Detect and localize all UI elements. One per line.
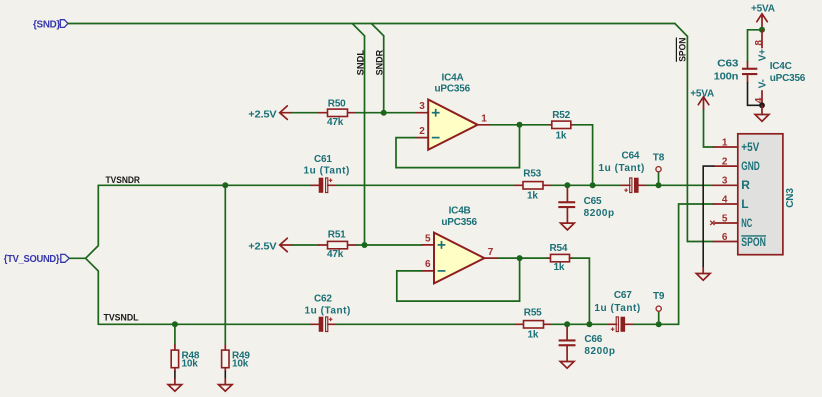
ground IC4C — [755, 105, 769, 121]
svg-text:+2.5V: +2.5V — [248, 242, 277, 253]
wire R48 stem — [174, 324, 176, 345]
junction R54 node — [586, 321, 592, 327]
svg-text:{SND}: {SND} — [33, 19, 60, 30]
svg-text:1u (Tant): 1u (Tant) — [594, 303, 640, 314]
svg-text:V+: V+ — [758, 49, 769, 61]
wire bias to R49 — [224, 185, 226, 345]
svg-text:8200p: 8200p — [584, 346, 615, 357]
junction C65 node — [564, 182, 570, 188]
svg-text:10k: 10k — [232, 359, 249, 370]
resistor R49 — [222, 345, 251, 385]
op-amp power unit IC4C — [754, 30, 806, 106]
power symbol +2.5V row1 — [248, 106, 292, 120]
capacitor C61 — [303, 154, 349, 193]
wire TVSNDR row — [98, 184, 311, 186]
wire CN3 GND black — [703, 166, 713, 268]
pin 6 IC4B — [422, 270, 434, 272]
svg-text:3: 3 — [419, 101, 425, 112]
capacitor C65 — [558, 188, 614, 223]
wire SPON vertical — [686, 36, 688, 241]
capacitor C64 — [598, 150, 646, 192]
wire SNDL vertical — [364, 36, 366, 245]
pin 5 IC4B — [422, 244, 434, 246]
svg-text:1k: 1k — [527, 190, 538, 201]
svg-text:1k: 1k — [554, 262, 565, 273]
pin 6 CN3 SPON with overbar — [714, 241, 738, 243]
op-amp U IC4B — [434, 206, 484, 284]
wire SNDL branch diagonal — [352, 24, 364, 36]
resistor R53 — [515, 169, 551, 202]
svg-text:100n: 100n — [714, 72, 739, 83]
svg-text:2: 2 — [722, 156, 728, 167]
svg-text:+5VA: +5VA — [751, 4, 775, 15]
junction IC4C V- black — [759, 102, 765, 108]
test point T8 — [653, 153, 665, 186]
pin 4 CN3 L — [714, 203, 738, 205]
wire R51 to IC4B pin5 — [356, 244, 422, 246]
svg-text:C61: C61 — [314, 154, 332, 165]
svg-text:CN3: CN3 — [785, 188, 796, 208]
svg-text:6: 6 — [722, 232, 728, 243]
svg-text:R55: R55 — [524, 308, 542, 319]
svg-text:2: 2 — [419, 126, 425, 137]
svg-text:SNDL: SNDL — [356, 50, 367, 76]
wire C62 to R55 — [336, 323, 515, 325]
junction T8 node — [656, 182, 662, 188]
wire TV_SOUND stem — [69, 257, 85, 259]
wire +2.5V to R50 — [293, 112, 319, 114]
svg-text:3: 3 — [722, 176, 728, 187]
svg-text:C67: C67 — [614, 290, 632, 301]
svg-text:C65: C65 — [584, 196, 602, 207]
svg-text:{TV_SOUND}: {TV_SOUND} — [4, 254, 60, 265]
junction IC4A output — [517, 122, 523, 128]
svg-text:4: 4 — [722, 194, 728, 205]
wire TV_SOUND upper diagonal — [86, 185, 99, 258]
svg-text:1: 1 — [722, 137, 728, 148]
svg-text:1: 1 — [481, 114, 487, 125]
ground C65 — [561, 223, 575, 230]
junction R48 node — [172, 321, 178, 327]
wire SPON to CN3 pin 6 — [687, 241, 713, 243]
capacitor C62 — [304, 293, 350, 331]
wire R54 to node L — [573, 258, 590, 324]
wire SNDR vertical — [383, 36, 385, 113]
junction SNDL R51 — [362, 242, 368, 248]
svg-text:C62: C62 — [314, 293, 332, 304]
svg-text:47k: 47k — [327, 117, 344, 128]
ground R49 — [219, 385, 233, 392]
resistor R55 — [516, 308, 552, 341]
svg-text:T8: T8 — [653, 153, 665, 164]
pin 2 IC4A — [416, 137, 428, 139]
wire C63 to V- black — [748, 83, 763, 106]
power symbol +2.5V row2 — [248, 238, 292, 252]
junction SNDR R50 — [381, 110, 387, 116]
svg-text:GND: GND — [741, 159, 760, 173]
pin 2 CN3 GND — [714, 165, 738, 167]
svg-text:1k: 1k — [528, 329, 539, 340]
svg-text:+5V: +5V — [741, 140, 759, 154]
wire +2.5V to R51 — [293, 244, 319, 246]
wire +5VA to CN3 pin1 — [704, 110, 714, 147]
capacitor C67 — [594, 290, 640, 332]
resistor R51 — [319, 229, 357, 260]
junction R52 node — [590, 182, 596, 188]
wire R52 to node R — [574, 125, 593, 186]
wire C64 to CN3 pin3 — [647, 184, 713, 186]
svg-text:4: 4 — [754, 97, 765, 103]
wire SND bus top — [68, 23, 675, 25]
wire C67 to corner — [634, 323, 679, 325]
svg-text:6: 6 — [425, 259, 431, 270]
svg-text:NC: NC — [741, 216, 752, 230]
pin 3 CN3 R — [713, 184, 738, 186]
svg-text:R: R — [741, 178, 750, 192]
svg-text:47k: 47k — [327, 249, 344, 260]
wire R55 to C67 — [552, 323, 609, 325]
resistor R52 — [549, 110, 573, 142]
wire SNDR branch diagonal — [371, 24, 383, 36]
hierarchical label TV_SOUND — [4, 254, 70, 265]
svg-text:uPC356: uPC356 — [441, 217, 477, 228]
svg-text:SPON: SPON — [678, 37, 689, 61]
hierarchical label SND — [33, 19, 68, 30]
resistor R48 — [171, 345, 200, 385]
power symbol +5VA mid — [690, 89, 714, 110]
wire IC4B output to R54 — [498, 257, 548, 259]
wire +5VA to C63 — [748, 30, 763, 62]
svg-text:TVSNDR: TVSNDR — [106, 175, 141, 186]
svg-text:IC4C: IC4C — [770, 61, 792, 72]
svg-text:T9: T9 — [653, 291, 665, 302]
capacitor C66 — [559, 327, 616, 362]
ground CN3 GND — [696, 268, 710, 281]
svg-text:R50: R50 — [328, 99, 346, 110]
svg-text:1u (Tant): 1u (Tant) — [303, 166, 349, 177]
svg-text:V-: V- — [758, 79, 769, 88]
junction TVSNDR bias — [222, 182, 228, 188]
svg-text:uPC356: uPC356 — [435, 83, 471, 94]
junction C66 node — [564, 321, 570, 327]
wire R50 to IC4A pin3 — [356, 112, 416, 114]
svg-text:1k: 1k — [556, 131, 567, 142]
svg-text:C66: C66 — [584, 334, 602, 345]
svg-text:R53: R53 — [523, 169, 541, 180]
svg-text:1u (Tant): 1u (Tant) — [598, 163, 644, 174]
wire L channel to CN3 pin4 — [679, 204, 714, 324]
svg-text:IC4B: IC4B — [449, 206, 471, 217]
pin 1 IC4A — [478, 124, 491, 126]
connector CN3 — [738, 134, 796, 255]
svg-text:C64: C64 — [622, 150, 640, 161]
svg-text:R54: R54 — [550, 243, 568, 254]
svg-text:uPC356: uPC356 — [770, 73, 806, 84]
pin 7 IC4B — [484, 257, 498, 259]
wire IC4B feedback loop — [397, 258, 520, 301]
svg-text:1u (Tant): 1u (Tant) — [304, 306, 350, 317]
junction +5VA IC4C — [759, 27, 765, 33]
svg-text:R51: R51 — [328, 229, 346, 240]
wire IC4A output to R52 — [491, 124, 550, 126]
resistor R54 — [548, 243, 573, 273]
svg-text:8200p: 8200p — [584, 208, 615, 219]
resistor R50 — [319, 99, 357, 129]
junction IC4B output — [517, 255, 523, 261]
svg-text:5: 5 — [425, 234, 431, 245]
op-amp U IC4A — [428, 72, 477, 150]
svg-text:10k: 10k — [182, 359, 199, 370]
wire TVSNDL row — [98, 323, 311, 325]
ground R48 — [168, 385, 182, 392]
test point T9 — [653, 291, 665, 324]
label SPON with overbar — [676, 37, 688, 61]
svg-text:SNDR: SNDR — [375, 50, 386, 76]
svg-text:IC4A: IC4A — [442, 72, 464, 83]
svg-text:8: 8 — [754, 40, 765, 46]
junction T9 node — [656, 321, 662, 327]
pin 1 CN3 +5V — [714, 146, 738, 148]
pin 5 CN3 NC with no-connect cross — [715, 222, 738, 224]
wire C61 to R53 — [336, 184, 515, 186]
svg-text:+2.5V: +2.5V — [248, 109, 277, 120]
svg-text:5: 5 — [722, 213, 728, 224]
svg-text:7: 7 — [488, 247, 494, 258]
svg-text:SPON: SPON — [741, 235, 766, 249]
wire TV_SOUND lower diagonal — [86, 258, 99, 324]
wire SPON branch diagonal — [675, 24, 688, 37]
svg-text:TVSNDL: TVSNDL — [104, 312, 139, 323]
ground C66 — [560, 362, 574, 369]
power symbol +5VA top — [751, 4, 775, 30]
svg-text:L: L — [741, 197, 748, 211]
wire R53 to C64 — [551, 184, 621, 186]
wire IC4A feedback loop — [396, 125, 520, 168]
svg-text:C63: C63 — [717, 58, 739, 69]
capacitor C63 — [714, 58, 758, 82]
pin 3 IC4A — [416, 112, 428, 114]
svg-text:R52: R52 — [552, 110, 570, 121]
